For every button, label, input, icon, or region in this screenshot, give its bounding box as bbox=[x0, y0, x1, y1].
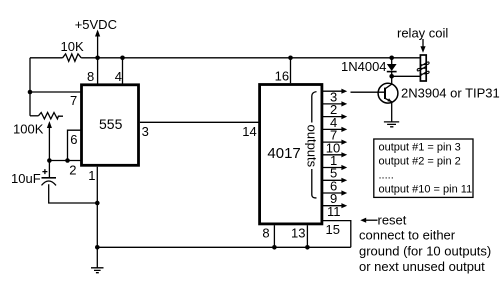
svg-text:8: 8 bbox=[262, 225, 269, 240]
svg-text:16: 16 bbox=[275, 68, 289, 83]
svg-text:6: 6 bbox=[70, 132, 77, 147]
svg-text:output #10 = pin 11: output #10 = pin 11 bbox=[379, 183, 473, 195]
svg-text:2: 2 bbox=[69, 163, 76, 178]
svg-text:connect to either: connect to either bbox=[359, 227, 456, 242]
svg-text:reset: reset bbox=[378, 212, 407, 227]
svg-text:14: 14 bbox=[242, 124, 256, 139]
svg-text:11: 11 bbox=[327, 204, 341, 219]
svg-text:100K: 100K bbox=[13, 122, 44, 137]
svg-text:10K: 10K bbox=[61, 39, 84, 54]
svg-text:13: 13 bbox=[291, 225, 305, 240]
svg-text:15: 15 bbox=[326, 222, 340, 237]
svg-text:1: 1 bbox=[88, 168, 95, 183]
svg-text:2N3904 or TIP31: 2N3904 or TIP31 bbox=[401, 86, 500, 101]
svg-text:4: 4 bbox=[115, 69, 122, 84]
svg-text:4017: 4017 bbox=[267, 145, 300, 162]
svg-text:1N4004: 1N4004 bbox=[341, 59, 387, 74]
svg-text:output #2 = pin 2: output #2 = pin 2 bbox=[379, 156, 461, 168]
svg-text:8: 8 bbox=[87, 69, 94, 84]
svg-text:.....: ..... bbox=[379, 169, 394, 181]
svg-text:ground (for 10 outputs): ground (for 10 outputs) bbox=[359, 243, 491, 258]
svg-text:10uF: 10uF bbox=[11, 171, 41, 186]
svg-text:or next unused output: or next unused output bbox=[359, 259, 485, 274]
svg-text:3: 3 bbox=[142, 124, 149, 139]
svg-text:relay coil: relay coil bbox=[397, 26, 448, 41]
svg-text:555: 555 bbox=[99, 116, 123, 132]
svg-text:outputs: outputs bbox=[305, 125, 320, 168]
svg-text:7: 7 bbox=[70, 93, 77, 108]
svg-text:output #1 = pin 3: output #1 = pin 3 bbox=[379, 142, 461, 154]
svg-text:+5VDC: +5VDC bbox=[75, 17, 117, 32]
